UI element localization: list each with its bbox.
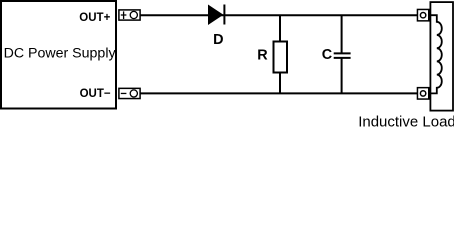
- svg-text:OUT+: OUT+: [79, 12, 110, 24]
- inductive load box: [430, 2, 453, 111]
- wire C branch bottom: [341, 58, 343, 94]
- capacitor C: [334, 53, 351, 58]
- svg-text:Inductive Load: Inductive Load: [358, 113, 454, 128]
- terminal OUT+: [119, 10, 140, 20]
- wire C branch top: [341, 15, 343, 53]
- svg-text:R: R: [257, 47, 268, 63]
- wire top: [140, 14, 418, 16]
- terminal load bottom: [417, 88, 428, 99]
- wire R branch bottom: [279, 73, 281, 95]
- DC power supply box: [1, 1, 116, 109]
- wire bottom: [140, 92, 418, 94]
- inductor coil: [431, 15, 442, 93]
- svg-text:OUT−: OUT−: [80, 88, 111, 100]
- svg-text:C: C: [322, 47, 332, 63]
- svg-text:DC Power Supply: DC Power Supply: [4, 45, 117, 61]
- wire R branch top: [279, 15, 281, 42]
- terminal OUT-: [119, 88, 140, 98]
- resistor R: [274, 42, 288, 73]
- diode D: [208, 5, 224, 26]
- svg-text:D: D: [213, 32, 223, 48]
- terminal load top: [417, 9, 428, 20]
